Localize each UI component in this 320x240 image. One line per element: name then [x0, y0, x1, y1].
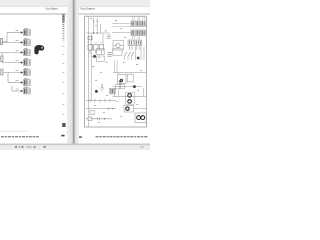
gauge G2	[128, 100, 132, 104]
motor M4	[141, 116, 145, 120]
wire	[7, 73, 9, 83]
wires left page	[0, 33, 20, 92]
node J5	[95, 90, 98, 93]
wire	[96, 18, 98, 33]
connector halves P1	[108, 53, 112, 57]
connector halves P0	[107, 35, 111, 39]
footer text left page	[1, 136, 39, 137]
svg-text:Circuit Diagrams: Circuit Diagrams	[80, 7, 95, 11]
gauge G1	[128, 94, 132, 98]
node J1	[93, 32, 94, 33]
wire	[1, 53, 3, 63]
wire	[86, 118, 112, 120]
lower-right cluster	[113, 81, 147, 123]
fuse F2	[1, 56, 3, 62]
wire stubs to top border	[133, 16, 145, 21]
wire pins below row B	[133, 36, 140, 39]
connector X4	[20, 58, 30, 65]
page top edge shade	[0, 5, 150, 8]
page background	[0, 0, 150, 150]
control unit U2	[97, 56, 105, 62]
top gray band	[0, 0, 150, 6]
wire	[3, 72, 20, 74]
middle-left cluster	[91, 49, 111, 62]
wire fork	[101, 86, 104, 91]
wire	[0, 42, 20, 44]
wire labels left page	[16, 30, 19, 89]
bus wire	[113, 96, 147, 98]
sparse legend marks	[62, 46, 64, 115]
wire	[112, 25, 131, 27]
wire	[7, 32, 20, 34]
wire	[125, 56, 132, 60]
svg-text:Circuit Diagrams: Circuit Diagrams	[46, 7, 59, 11]
wire	[90, 50, 101, 54]
connector X5	[20, 68, 30, 75]
wire	[99, 24, 101, 33]
gutter background	[67, 0, 79, 144]
link ticks	[90, 99, 110, 102]
arrow	[104, 118, 106, 120]
fuse F3	[1, 69, 3, 75]
footer text right page	[96, 136, 148, 137]
gutter inner shade	[70, 0, 77, 144]
wire	[112, 23, 131, 25]
footer right page: page number	[79, 136, 82, 137]
wire	[12, 90, 20, 92]
wire	[130, 45, 140, 50]
spine line soft edge right	[73, 0, 76, 144]
sensor box U4	[116, 84, 120, 89]
wire	[134, 108, 147, 110]
link bus wire 2	[86, 108, 116, 110]
node J4	[137, 57, 140, 60]
wire	[112, 32, 131, 34]
wire	[0, 52, 20, 54]
connector P2	[110, 88, 116, 94]
lamp L1	[120, 79, 123, 82]
bus wire	[113, 72, 146, 74]
connector row CB	[131, 30, 145, 36]
page number left page	[61, 135, 64, 137]
legend end block	[62, 123, 65, 127]
connector X1	[20, 28, 30, 35]
label text dark	[119, 81, 122, 82]
node J2	[97, 32, 98, 33]
node J3	[93, 55, 96, 58]
wire	[6, 33, 8, 43]
gauge box	[126, 92, 134, 104]
connector X7	[20, 87, 30, 94]
fuse F4	[93, 21, 98, 23]
wire	[93, 18, 95, 33]
relay K3	[99, 45, 103, 50]
inline connector P3	[88, 117, 92, 121]
wire	[102, 33, 104, 44]
fuse F1	[1, 39, 3, 45]
node J6	[133, 85, 136, 88]
spine line soft edge	[71, 0, 74, 144]
header rule left page	[0, 13, 67, 16]
resistor R1	[88, 36, 92, 39]
hand cursor	[34, 45, 44, 54]
wire	[118, 73, 131, 75]
spine line	[73, 0, 74, 144]
relay K5	[127, 75, 133, 82]
connector row CC	[128, 40, 142, 50]
connector X6	[20, 78, 30, 85]
wire	[91, 55, 93, 57]
wire	[11, 86, 13, 91]
middle-right cluster	[113, 47, 147, 84]
wire	[114, 88, 143, 97]
bus wire	[113, 86, 143, 88]
lower-left cluster	[86, 86, 116, 121]
legend strip right edge of left page	[62, 14, 65, 127]
bus wire	[90, 33, 92, 101]
tick marks	[98, 117, 100, 120]
connector X2	[20, 38, 30, 45]
motor M3	[137, 116, 141, 120]
motor box M2	[135, 113, 146, 122]
instrument box U3	[113, 49, 122, 55]
relay K2	[94, 45, 98, 50]
wire	[8, 82, 20, 84]
relay K6	[124, 105, 134, 112]
wire	[115, 60, 118, 73]
label mark	[95, 42, 102, 44]
relay K4	[118, 75, 126, 84]
top-right connector rows	[112, 16, 145, 50]
wire	[2, 62, 20, 64]
relay K1	[88, 45, 92, 50]
connector X3	[20, 48, 30, 55]
bottom gray strip	[0, 145, 150, 150]
bus wire	[86, 32, 110, 34]
schematic frame	[85, 16, 147, 127]
switch S1	[125, 52, 135, 56]
control unit U1	[97, 49, 105, 55]
link bus wire	[86, 100, 116, 102]
bottom strip toolbar marks	[15, 146, 144, 147]
lamp L2	[126, 107, 129, 110]
connector row CA	[131, 21, 145, 26]
connector column units (terminal strip)	[20, 28, 30, 94]
arrow marks	[108, 108, 114, 110]
wire	[3, 41, 7, 43]
junction box B1	[90, 110, 94, 114]
wire label speckles right page	[87, 18, 142, 123]
motor box M1	[113, 41, 124, 51]
bottom page edge shadow	[0, 144, 150, 146]
schematic bottom dashed line left page	[0, 130, 29, 132]
wire	[135, 47, 144, 61]
header rule right page	[79, 13, 150, 16]
bus wire	[88, 16, 90, 127]
